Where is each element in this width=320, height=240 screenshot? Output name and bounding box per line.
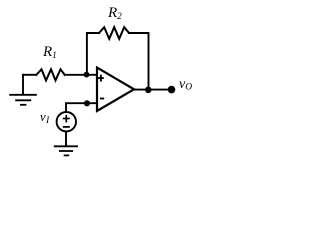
node: vO terminal — [168, 86, 176, 94]
op-amp U1 — [97, 68, 134, 112]
label vO — [179, 77, 192, 93]
wire: op-amp output to vO terminal — [134, 89, 171, 91]
ground (left, at R1 input) — [9, 75, 37, 105]
node: output/feedback junction — [145, 87, 152, 94]
op-amp inverting input mark (-) — [100, 98, 104, 100]
label R1 — [43, 44, 57, 61]
node: inverting input junction — [84, 100, 90, 106]
label vI — [40, 110, 49, 125]
resistor R2 — [99, 27, 129, 39]
wire: vI to inverting input — [66, 103, 97, 112]
wire: R1 to noninverting input node — [65, 74, 97, 76]
resistor R1 — [36, 69, 64, 80]
ground (below vI) — [54, 146, 78, 155]
node: noninverting input junction — [84, 72, 90, 78]
source vI — [57, 112, 76, 131]
op-amp noninverting input mark (+) — [98, 75, 104, 82]
label R2 — [108, 5, 122, 22]
wire: R2 to output node (right vertical) — [129, 33, 149, 90]
wire: vI bottom to ground — [65, 131, 67, 145]
wire: feedback loop left vertical (node to R2) — [87, 33, 99, 75]
wire: left ground to R1 — [23, 74, 36, 76]
